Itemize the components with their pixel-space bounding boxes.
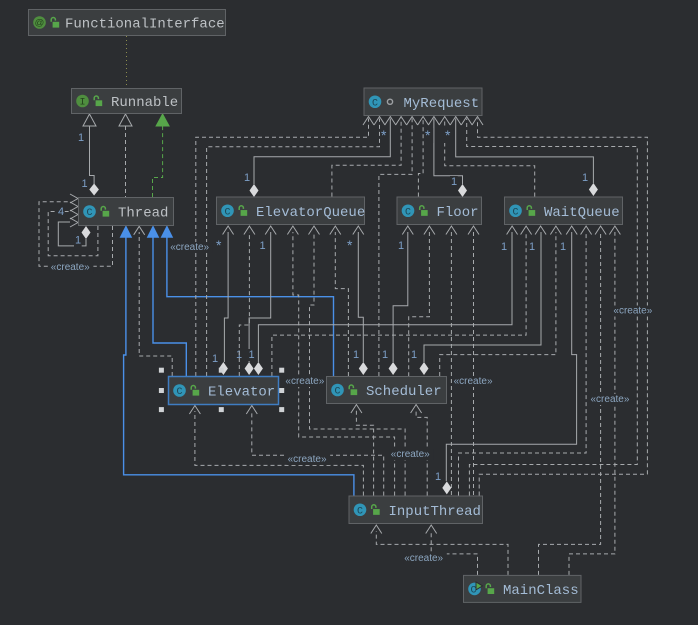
svg-text:1: 1 [382,349,388,361]
svg-text:Floor: Floor [437,205,479,221]
svg-text:«create»: «create» [613,306,652,317]
svg-text:1: 1 [560,241,566,253]
svg-text:C: C [334,387,340,398]
svg-text:1: 1 [212,353,218,365]
svg-text:*: * [381,127,387,143]
svg-text:«create»: «create» [391,449,430,460]
svg-text:Runnable: Runnable [111,95,178,111]
svg-text:«create»: «create» [404,553,443,564]
svg-text:*: * [445,127,451,143]
svg-text:1: 1 [244,172,250,184]
svg-text:1: 1 [398,240,404,252]
svg-text:@: @ [35,18,45,29]
svg-text:Elevator: Elevator [208,385,275,401]
svg-text:MyRequest: MyRequest [404,96,480,112]
svg-text:*: * [347,237,353,253]
svg-text:C: C [357,506,363,517]
svg-text:C: C [176,387,182,398]
svg-text:I: I [79,98,85,109]
svg-text:«create»: «create» [170,242,209,253]
svg-text:1: 1 [249,349,255,361]
svg-text:1: 1 [75,235,81,247]
svg-text:1: 1 [353,349,359,361]
svg-text:C: C [372,98,378,109]
svg-text:1: 1 [529,241,535,253]
svg-text:Thread: Thread [118,206,168,222]
svg-text:1: 1 [451,176,457,188]
svg-text:FunctionalInterface: FunctionalInterface [65,17,225,33]
svg-text:InputThread: InputThread [389,504,481,520]
svg-text:4: 4 [58,206,64,218]
svg-text:«create»: «create» [591,394,630,405]
svg-text:Scheduler: Scheduler [366,384,442,400]
svg-text:MainClass: MainClass [503,583,579,599]
svg-text:C: C [405,207,411,218]
svg-text:C: C [86,208,92,219]
svg-text:WaitQueue: WaitQueue [544,205,620,221]
svg-text:«create»: «create» [285,376,324,387]
svg-text:1: 1 [78,132,84,144]
svg-text:«create»: «create» [288,454,327,465]
svg-text:C: C [512,207,518,218]
svg-text:1: 1 [435,471,441,483]
svg-text:*: * [216,237,222,253]
svg-text:1: 1 [411,349,417,361]
svg-text:*: * [425,127,431,143]
svg-text:«create»: «create» [51,262,90,273]
svg-text:«create»: «create» [454,376,493,387]
svg-text:C: C [224,207,230,218]
svg-text:1: 1 [260,240,266,252]
svg-text:1: 1 [582,172,588,184]
svg-text:ElevatorQueue: ElevatorQueue [256,205,365,221]
svg-text:1: 1 [501,241,507,253]
svg-text:1: 1 [82,178,88,190]
